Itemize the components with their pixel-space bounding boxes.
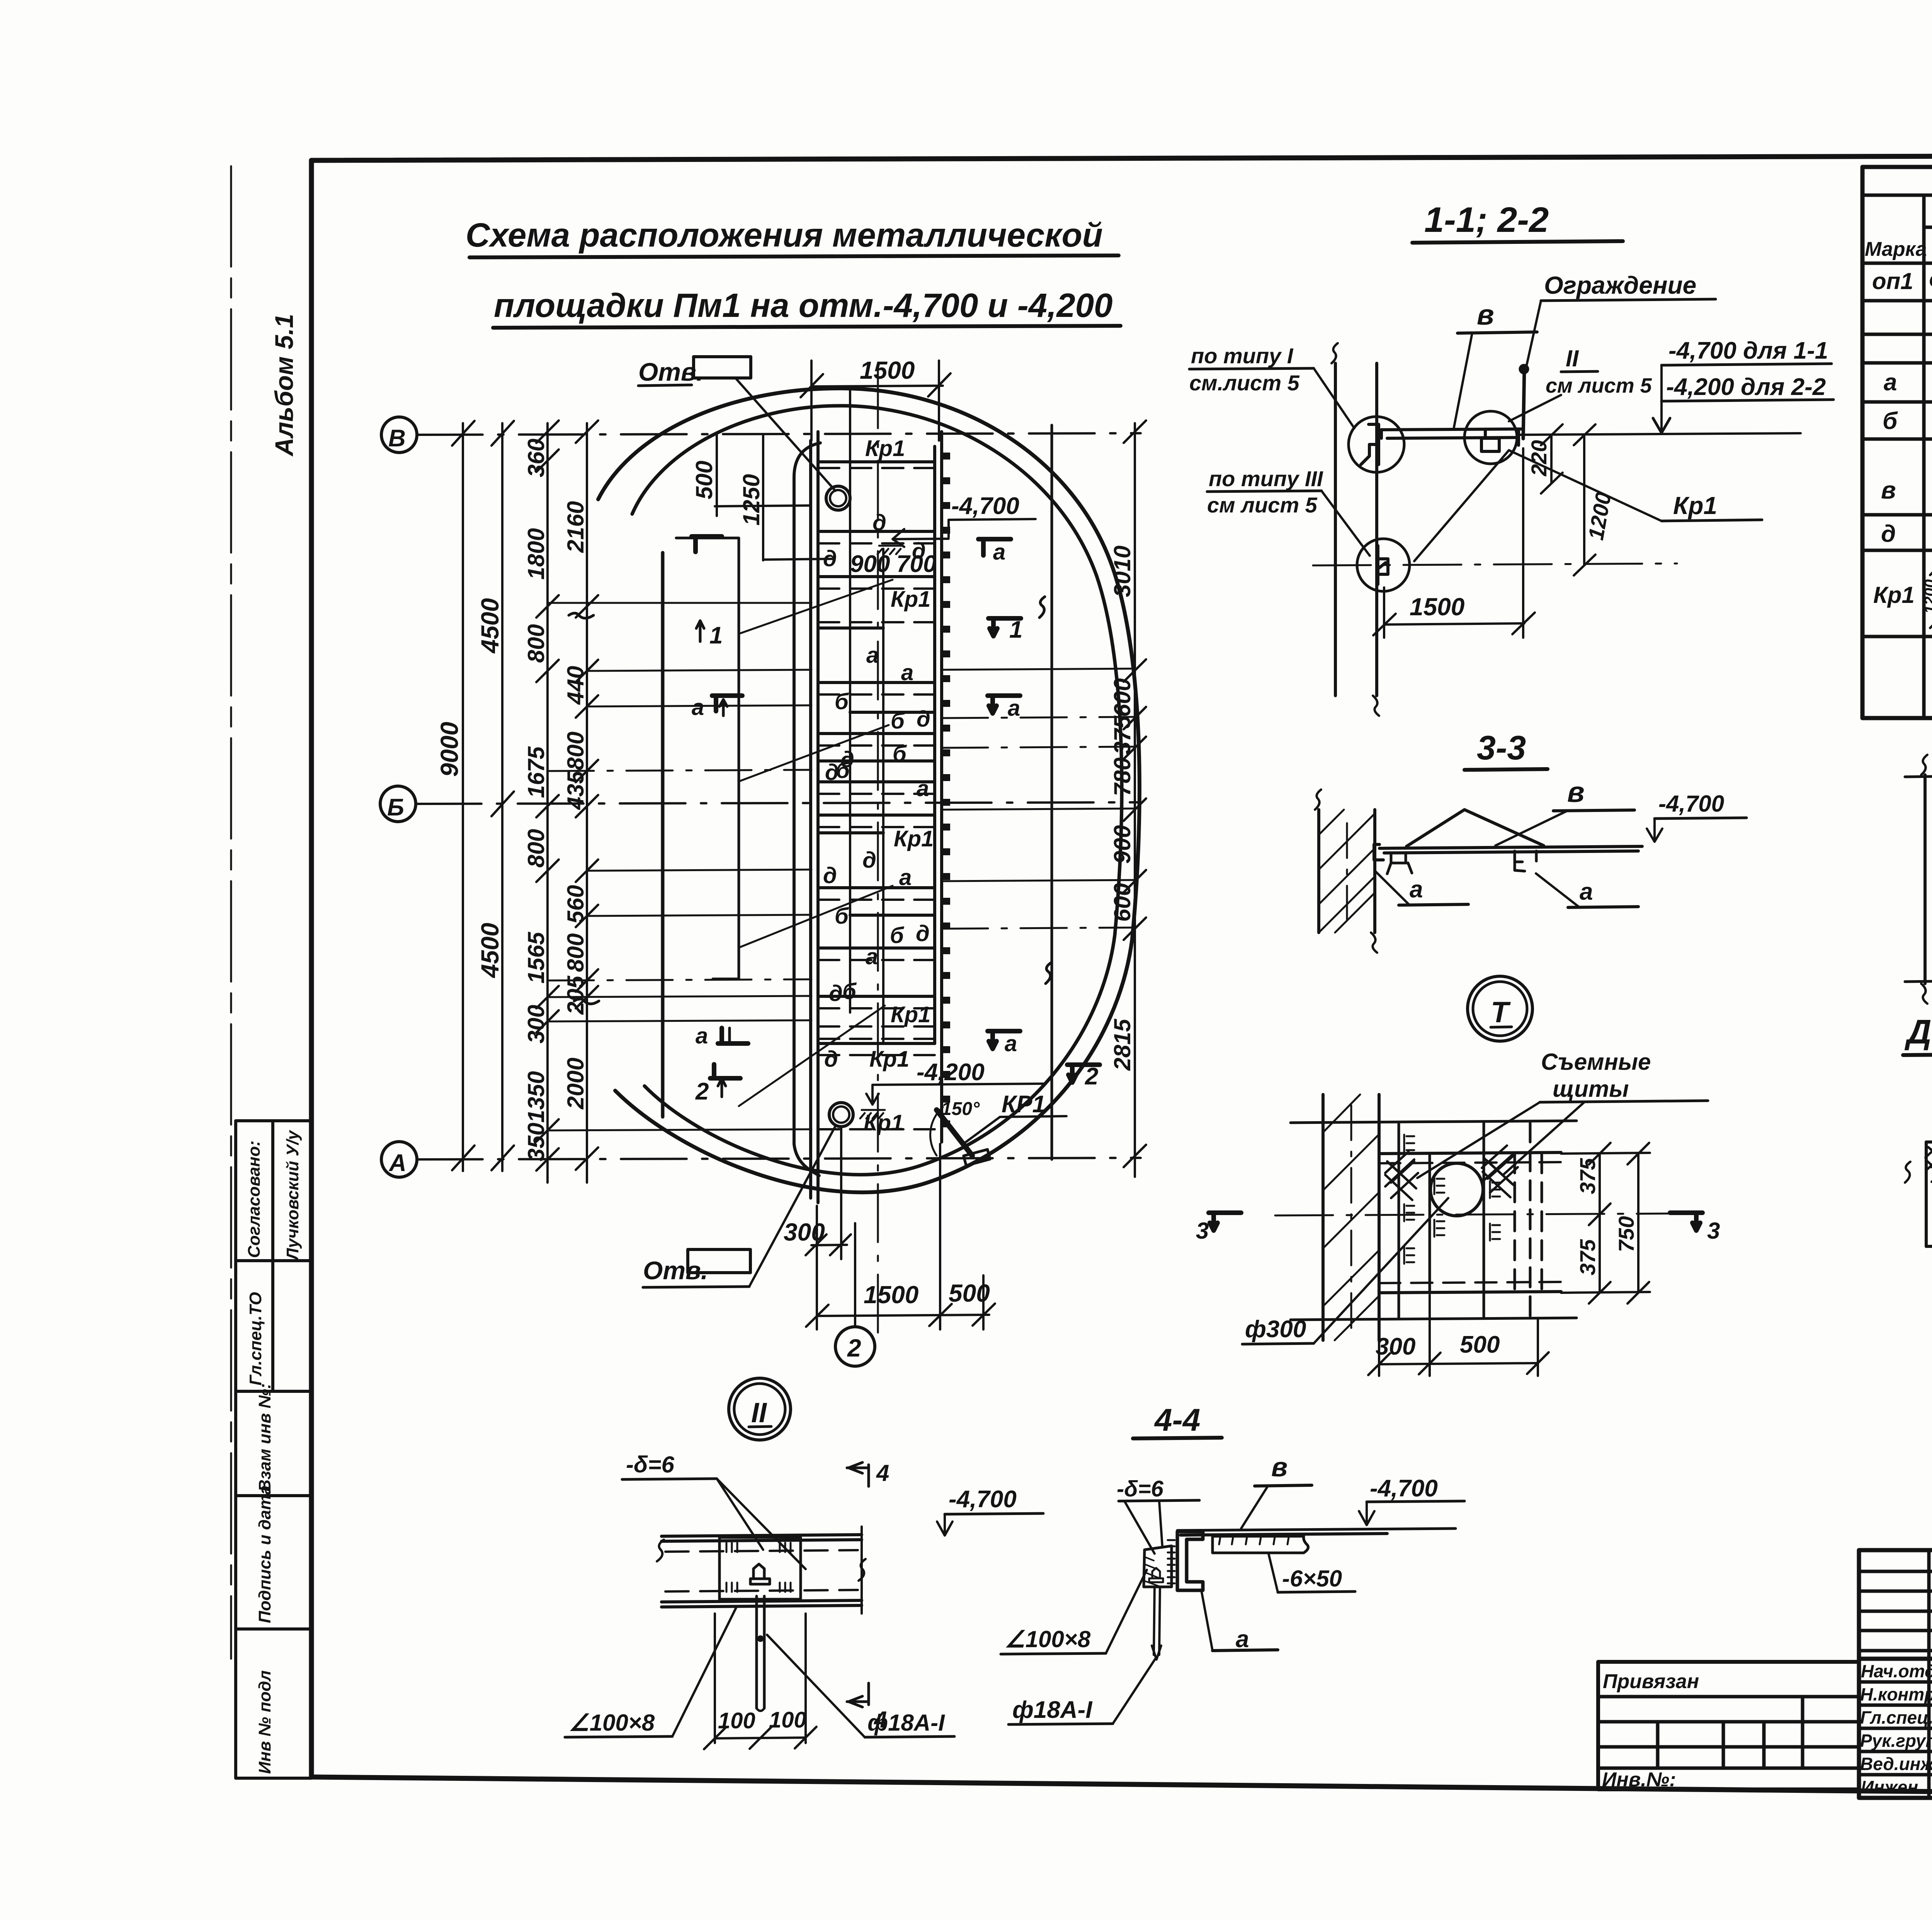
centerline through wall (1313, 563, 1677, 565)
frame sketch row Кр1 (1922, 556, 1932, 628)
detail circle type I (1349, 417, 1404, 472)
vertical dim 1200 (1574, 424, 1616, 575)
svg-text:1-1; 2-2: 1-1; 2-2 (1424, 200, 1549, 240)
svg-text:500: 500 (1460, 1331, 1500, 1358)
table verticals (1924, 195, 1932, 718)
svg-text:в: в (1567, 776, 1585, 808)
svg-text:Отв.: Отв. (643, 1256, 708, 1285)
crosshatch left outside (1925, 1136, 1932, 1184)
svg-text:а: а (692, 695, 704, 720)
signature texts (1860, 1660, 1932, 1797)
svg-text:Гл.спец.ТО: Гл.спец.ТО (246, 1292, 265, 1386)
svg-text:ф300: ф300 (1245, 1316, 1306, 1343)
svg-text:-6×50: -6×50 (1282, 1566, 1342, 1591)
axis circle B (381, 417, 417, 453)
svg-text:2815: 2815 (1109, 1018, 1135, 1071)
label в with leader (1454, 299, 1537, 429)
leader diagonals into panels (739, 580, 893, 1106)
svg-text:-δ=6: -δ=6 (626, 1452, 675, 1477)
svg-text:800: 800 (563, 933, 588, 972)
svg-text:д: д (872, 510, 886, 535)
bottom hole circle (829, 1103, 853, 1127)
svg-text:Кр1: Кр1 (869, 1047, 909, 1072)
wall double line (1332, 343, 1379, 716)
svg-text:Деталь съемного щита лотка: Деталь съемного щита лотка (1904, 1013, 1932, 1051)
svg-text:∠100×8: ∠100×8 (1005, 1626, 1091, 1652)
deck level line (1177, 1529, 1456, 1530)
svg-text:Т: Т (1491, 996, 1511, 1029)
svg-text:а: а (1236, 1626, 1249, 1653)
svg-text:Кр1: Кр1 (1673, 492, 1717, 519)
svg-text:Кр1: Кр1 (865, 436, 905, 461)
svg-text:1500: 1500 (1410, 593, 1464, 621)
vertical dims 500 and 1250 (691, 435, 835, 560)
svg-text:д: д (823, 546, 837, 571)
svg-text:Согласовано:: Согласовано: (245, 1140, 264, 1258)
platform plank (1381, 429, 1522, 445)
table outer box (1862, 167, 1932, 718)
label Ограждение (1526, 271, 1716, 370)
svg-text:в: в (1271, 1452, 1287, 1482)
bracket in circle II (1481, 430, 1499, 451)
svg-text:Рук.груп: Рук.груп (1860, 1731, 1932, 1751)
label removable shields (1417, 1049, 1708, 1178)
svg-text:700: 700 (896, 551, 936, 577)
svg-text:оп1: оп1 (1872, 268, 1913, 294)
svg-text:1200: 1200 (1922, 579, 1932, 614)
svg-text:в: в (1881, 476, 1896, 504)
rivet ticks (942, 453, 950, 1127)
svg-text:1675: 1675 (523, 746, 549, 798)
svg-text:100: 100 (718, 1708, 755, 1733)
inner panel verticals (850, 386, 883, 1043)
svg-text:д: д (862, 848, 876, 873)
svg-text:а: а (1005, 1031, 1017, 1056)
svg-text:800: 800 (523, 829, 549, 868)
left sheet edge line (230, 166, 232, 1659)
svg-text:Отв.: Отв. (638, 357, 703, 386)
svg-text:Лучковский У/у: Лучковский У/у (283, 1130, 302, 1261)
svg-text:Кр1: Кр1 (891, 1002, 930, 1027)
svg-text:Кр1: Кр1 (891, 587, 930, 612)
svg-text:3010: 3010 (1109, 546, 1135, 597)
svg-text:100: 100 (769, 1707, 806, 1733)
svg-text:д: д (824, 1047, 838, 1072)
svg-text:150°: 150° (941, 1099, 980, 1119)
svg-text:Марка: Марка (1865, 238, 1927, 260)
svg-text:220: 220 (1527, 440, 1551, 477)
channel stub right (1515, 851, 1536, 871)
svg-text:а: а (901, 660, 913, 685)
svg-text:440: 440 (563, 666, 588, 705)
vertical dim 220 (1527, 424, 1563, 494)
svg-text:3: 3 (1707, 1218, 1720, 1244)
svg-text:Схема расположения металлическ: Схема расположения металлической (466, 216, 1103, 254)
svg-text:по типу I: по типу I (1191, 344, 1294, 368)
rotated margin labels (245, 1130, 302, 1774)
dim 1500 bottom (1373, 448, 1535, 638)
horizontal extension lines right side (942, 669, 1135, 929)
svg-text:б: б (835, 689, 849, 714)
svg-text:Инжен: Инжен (1861, 1777, 1918, 1797)
svg-text:д: д (1881, 521, 1896, 547)
dashed deck edges (1379, 1162, 1561, 1283)
svg-text:а: а (993, 540, 1005, 565)
svg-text:по типу III: по типу III (1209, 466, 1323, 491)
gusset triangle (1406, 810, 1544, 846)
top chord lines (1291, 1121, 1577, 1123)
dim 100 100 (704, 1707, 816, 1749)
svg-text:-4,200 для 2-2: -4,200 для 2-2 (1666, 374, 1826, 400)
center plate with bolt (719, 1537, 801, 1599)
table horizontals (1862, 195, 1932, 674)
svg-text:2000: 2000 (563, 1058, 588, 1110)
centerline (1275, 1214, 1673, 1215)
channel profile (1177, 1532, 1203, 1590)
signature grid columns (1929, 1550, 1932, 1798)
svg-text:-4,700: -4,700 (949, 1486, 1017, 1513)
svg-text:Подпись и дата: Подпись и дата (255, 1485, 274, 1623)
inner wall line (794, 443, 820, 1144)
hole circle (1430, 1163, 1483, 1216)
bracket in circle III (1378, 546, 1388, 584)
svg-text:-δ=6: -δ=6 (1117, 1476, 1164, 1501)
svg-text:4500: 4500 (476, 598, 504, 654)
svg-text:1500: 1500 (860, 356, 915, 384)
svg-text:д: д (829, 981, 843, 1006)
tank left wall chord (661, 553, 665, 1117)
svg-text:Ограждение: Ограждение (1544, 271, 1696, 299)
svg-text:А: А (388, 1150, 406, 1176)
svg-text:300: 300 (1376, 1333, 1415, 1360)
axis circle Б (380, 786, 416, 822)
svg-text:ОППМХЭб-10.36: ОППМХЭб-10.36 (1929, 271, 1932, 291)
section markers left side (692, 536, 748, 1105)
top hole circle (826, 486, 850, 510)
svg-text:Съемные: Съемные (1541, 1049, 1651, 1075)
svg-text:б: б (893, 741, 907, 766)
marker а upper (712, 696, 742, 711)
svg-text:900: 900 (1109, 825, 1135, 864)
platform deck line (1374, 844, 1642, 860)
elevation mark top (ground symbol) (878, 546, 902, 554)
svg-text:1565: 1565 (523, 931, 549, 984)
axis line Б (416, 802, 1141, 804)
bottom brace Кр1 with 150deg (930, 1091, 1066, 1166)
horizontal extension lines left side (548, 603, 811, 1130)
svg-text:2: 2 (1085, 1063, 1098, 1090)
section markers right side (978, 539, 1100, 1090)
detail circle type II (1464, 411, 1517, 464)
tank outer shell (598, 388, 1139, 1192)
break squiggles (1039, 597, 1045, 618)
right chord line (1051, 425, 1053, 1159)
marker а lower (718, 1028, 748, 1043)
comb ticks on channel web (1168, 1540, 1175, 1583)
comb ticks pattern (1404, 1135, 1500, 1264)
break marks (1905, 1162, 1910, 1183)
svg-text:Гл.спец.: Гл.спец. (1860, 1707, 1932, 1728)
svg-text:750: 750 (1614, 1216, 1638, 1252)
svg-text:Кр1: Кр1 (1873, 582, 1915, 608)
svg-text:д: д (823, 863, 837, 888)
svg-text:б: б (891, 708, 905, 734)
svg-text:ф18А-I: ф18А-I (1012, 1697, 1093, 1723)
svg-text:500: 500 (949, 1279, 990, 1307)
svg-text:2: 2 (695, 1078, 709, 1105)
strip centre dash-dot axis (877, 370, 879, 1341)
label po tipu III (1207, 466, 1370, 556)
svg-text:см.лист 5: см.лист 5 (1189, 371, 1300, 395)
svg-text:560: 560 (563, 885, 588, 924)
svg-text:1500: 1500 (864, 1281, 918, 1309)
margin boxes outline (236, 1121, 311, 1778)
tank inner shell (632, 406, 1122, 1175)
svg-text:-4,700: -4,700 (1658, 791, 1724, 817)
axis circle А (381, 1142, 417, 1177)
svg-text:-4,200: -4,200 (917, 1059, 985, 1086)
gusset plate with hatch (1144, 1546, 1172, 1588)
svg-text:1: 1 (1009, 616, 1022, 643)
svg-text:4: 4 (876, 1460, 889, 1486)
elevation -4,700 plan (893, 493, 1036, 547)
svg-text:500: 500 (691, 461, 717, 499)
svg-text:а: а (1008, 696, 1020, 721)
svg-text:-4,700 для 1-1: -4,700 для 1-1 (1668, 337, 1828, 364)
svg-text:1: 1 (709, 622, 723, 649)
section marks 3 (1196, 1213, 1720, 1244)
section mark 4 top (847, 1462, 869, 1486)
svg-text:Кр1: Кр1 (894, 826, 934, 851)
inner wall bottom bend (794, 1144, 819, 1176)
channel stub left (1387, 853, 1412, 874)
svg-text:300: 300 (523, 1005, 549, 1043)
marker 2 (710, 1064, 740, 1078)
section mark 4 bottom (847, 1683, 869, 1707)
svg-text:д: д (916, 921, 930, 946)
svg-text:а: а (696, 1023, 708, 1049)
svg-text:1350: 1350 (523, 1071, 549, 1123)
svg-text:300: 300 (784, 1218, 825, 1246)
svg-text:2: 2 (847, 1334, 861, 1362)
right dimension string 3010/600/375/780/900/600/2815 (1109, 420, 1146, 1177)
svg-text:площадки Пм1 на отм.-4,700 и: площадки Пм1 на отм.-4,700 и -4,200 (494, 287, 1113, 324)
svg-text:КР1: КР1 (1002, 1091, 1046, 1118)
label II with leader (1509, 346, 1652, 421)
svg-text:-4,700: -4,700 (951, 493, 1019, 519)
bolt rod (1152, 1587, 1161, 1660)
extension verticals (715, 1614, 806, 1743)
svg-text:375: 375 (1575, 1158, 1600, 1194)
section cut bracket (676, 538, 739, 979)
wall with hatch (1315, 790, 1377, 953)
svg-text:Вед.инж: Вед.инж (1860, 1754, 1932, 1774)
svg-text:В: В (388, 425, 406, 452)
bottom opening rect (643, 1125, 836, 1287)
dims 375/375/750 (1561, 1143, 1650, 1304)
dimension string 9000 (435, 421, 474, 1171)
svg-text:3: 3 (1196, 1218, 1209, 1244)
svg-text:а: а (866, 643, 879, 668)
signature grid box (1859, 1550, 1932, 1798)
svg-text:II: II (751, 1397, 767, 1428)
svg-text:780: 780 (1109, 757, 1135, 796)
dimension string 4500/4500 (476, 421, 514, 1171)
panel horizontal members (818, 462, 935, 1043)
vertical members (1399, 1123, 1542, 1318)
platform strip right wall with rivets (935, 432, 942, 1142)
wall hatched strip (1323, 1094, 1379, 1340)
svg-text:II: II (1566, 346, 1579, 371)
panel dashed lines (818, 468, 935, 1129)
bottom dim 300 (784, 1128, 851, 1259)
marker 1 top-left (692, 536, 722, 552)
platform strip left wall (811, 432, 818, 1203)
svg-text:Н.контр: Н.контр (1860, 1684, 1932, 1704)
svg-text:1800: 1800 (523, 528, 549, 580)
privyazan block (1598, 1662, 1859, 1791)
elevation mark bottom (ground symbol) (860, 1110, 885, 1118)
svg-text:435: 435 (563, 770, 588, 810)
svg-text:600: 600 (1109, 883, 1135, 922)
label ф300 (1242, 1198, 1448, 1344)
bracket in circle I (1361, 424, 1379, 465)
bolt rod down (757, 1596, 764, 1711)
panel labels (823, 436, 936, 1135)
left wall (1905, 755, 1932, 1004)
svg-text:800: 800 (523, 624, 549, 663)
detail circle type III (1357, 539, 1410, 591)
upper small rows (1859, 1571, 1932, 1651)
svg-text:Б: Б (387, 794, 404, 821)
svg-text:а: а (899, 865, 912, 890)
deck top plate (1180, 1534, 1387, 1535)
svg-text:4500: 4500 (476, 923, 504, 979)
svg-text:ф18А-I: ф18А-I (867, 1710, 945, 1736)
svg-text:Инв.№:: Инв.№: (1602, 1769, 1676, 1791)
svg-text:д: д (917, 706, 930, 732)
dimension string 360/1800/800/1675/800/1565/300/1350/350 (523, 420, 559, 1183)
label po tipu I (1189, 344, 1354, 428)
sheet frame (311, 116, 1932, 1798)
svg-text:б: б (836, 758, 850, 783)
svg-text:Взам инв №:: Взам инв №: (255, 1383, 274, 1492)
svg-text:9000: 9000 (435, 722, 463, 777)
svg-text:а: а (1410, 876, 1423, 903)
svg-text:см лист 5: см лист 5 (1546, 374, 1652, 397)
axis line А (417, 1158, 1141, 1159)
ribbed plank (1213, 1536, 1308, 1553)
svg-text:-4,700: -4,700 (1370, 1475, 1438, 1502)
svg-text:375: 375 (1575, 1239, 1600, 1275)
crosshatch patch right (1482, 1146, 1518, 1197)
svg-text:800: 800 (563, 732, 588, 770)
svg-text:Инв № подл: Инв № подл (255, 1670, 274, 1774)
svg-text:∠100×8: ∠100×8 (569, 1710, 655, 1736)
svg-text:1250: 1250 (738, 474, 764, 526)
elevation labels -4,700/-4,200 (1519, 337, 1833, 435)
axis line B (417, 433, 1141, 435)
svg-text:4-4: 4-4 (1154, 1403, 1201, 1438)
dimension string 2160/440/800/435/560/800/205/2000 (563, 420, 598, 1183)
beam body (657, 1527, 866, 1614)
svg-text:а: а (866, 944, 878, 969)
svg-text:а: а (1884, 369, 1897, 396)
svg-text:Нач.отд.: Нач.отд. (1861, 1661, 1932, 1681)
dims 300/500 bottom (1368, 1295, 1549, 1376)
signature rows (1859, 1659, 1932, 1775)
guard rail post (1520, 366, 1527, 439)
table body texts (1872, 268, 1932, 636)
svg-text:щиты: щиты (1553, 1076, 1629, 1102)
svg-text:350: 350 (523, 1123, 549, 1161)
svg-text:3-3: 3-3 (1477, 729, 1526, 767)
svg-text:600: 600 (1109, 678, 1135, 717)
svg-text:Альбом 5.1: Альбом 5.1 (270, 314, 298, 457)
svg-text:см лист 5: см лист 5 (1207, 493, 1318, 517)
outer panel (1926, 1140, 1932, 1246)
svg-text:360: 360 (523, 439, 549, 477)
table header texts (1865, 200, 1932, 267)
svg-text:б: б (890, 923, 905, 948)
svg-text:2160: 2160 (563, 501, 588, 553)
elevation -4,200 plan (866, 1059, 1043, 1105)
top opening rect (638, 357, 835, 491)
crosshatch patch left (1385, 1152, 1418, 1200)
label Кр1 (1414, 450, 1762, 561)
svg-text:б: б (1883, 408, 1898, 434)
svg-text:Привязан: Привязан (1603, 1670, 1699, 1693)
svg-text:а: а (1580, 878, 1593, 905)
svg-text:375: 375 (1109, 715, 1135, 754)
svg-text:в: в (1477, 299, 1494, 331)
top dim 1500 (801, 356, 951, 441)
bottom dim 1500/500 (806, 1144, 995, 1329)
svg-text:а: а (917, 776, 929, 801)
